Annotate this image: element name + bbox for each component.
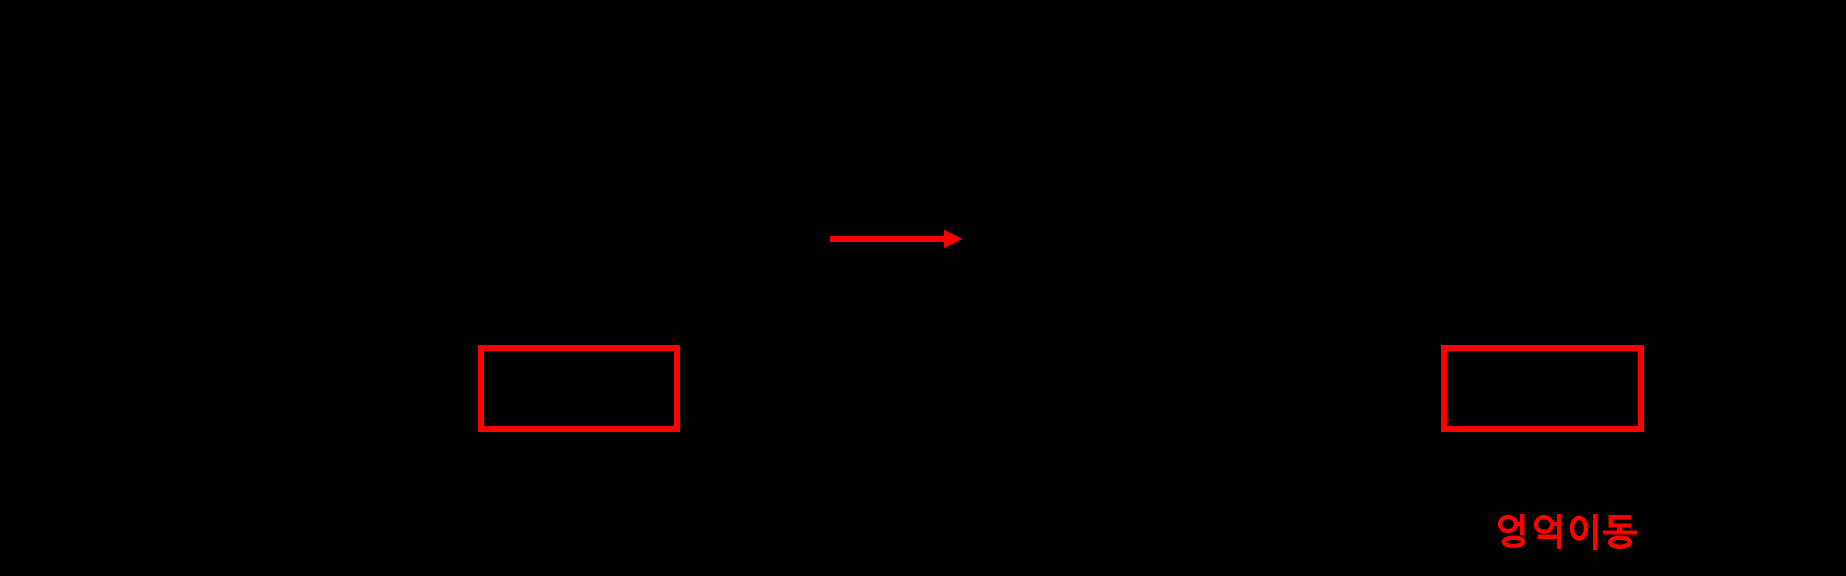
glyph 이	[1572, 514, 1597, 550]
glyph 영	[1500, 514, 1524, 546]
glyph 역	[1536, 514, 1562, 549]
red label: 영역이동	[1500, 514, 1637, 550]
red arrow	[830, 230, 963, 249]
red rectangle right	[1444, 348, 1641, 429]
glyph 동	[1603, 515, 1637, 547]
red rectangle left	[481, 348, 677, 429]
